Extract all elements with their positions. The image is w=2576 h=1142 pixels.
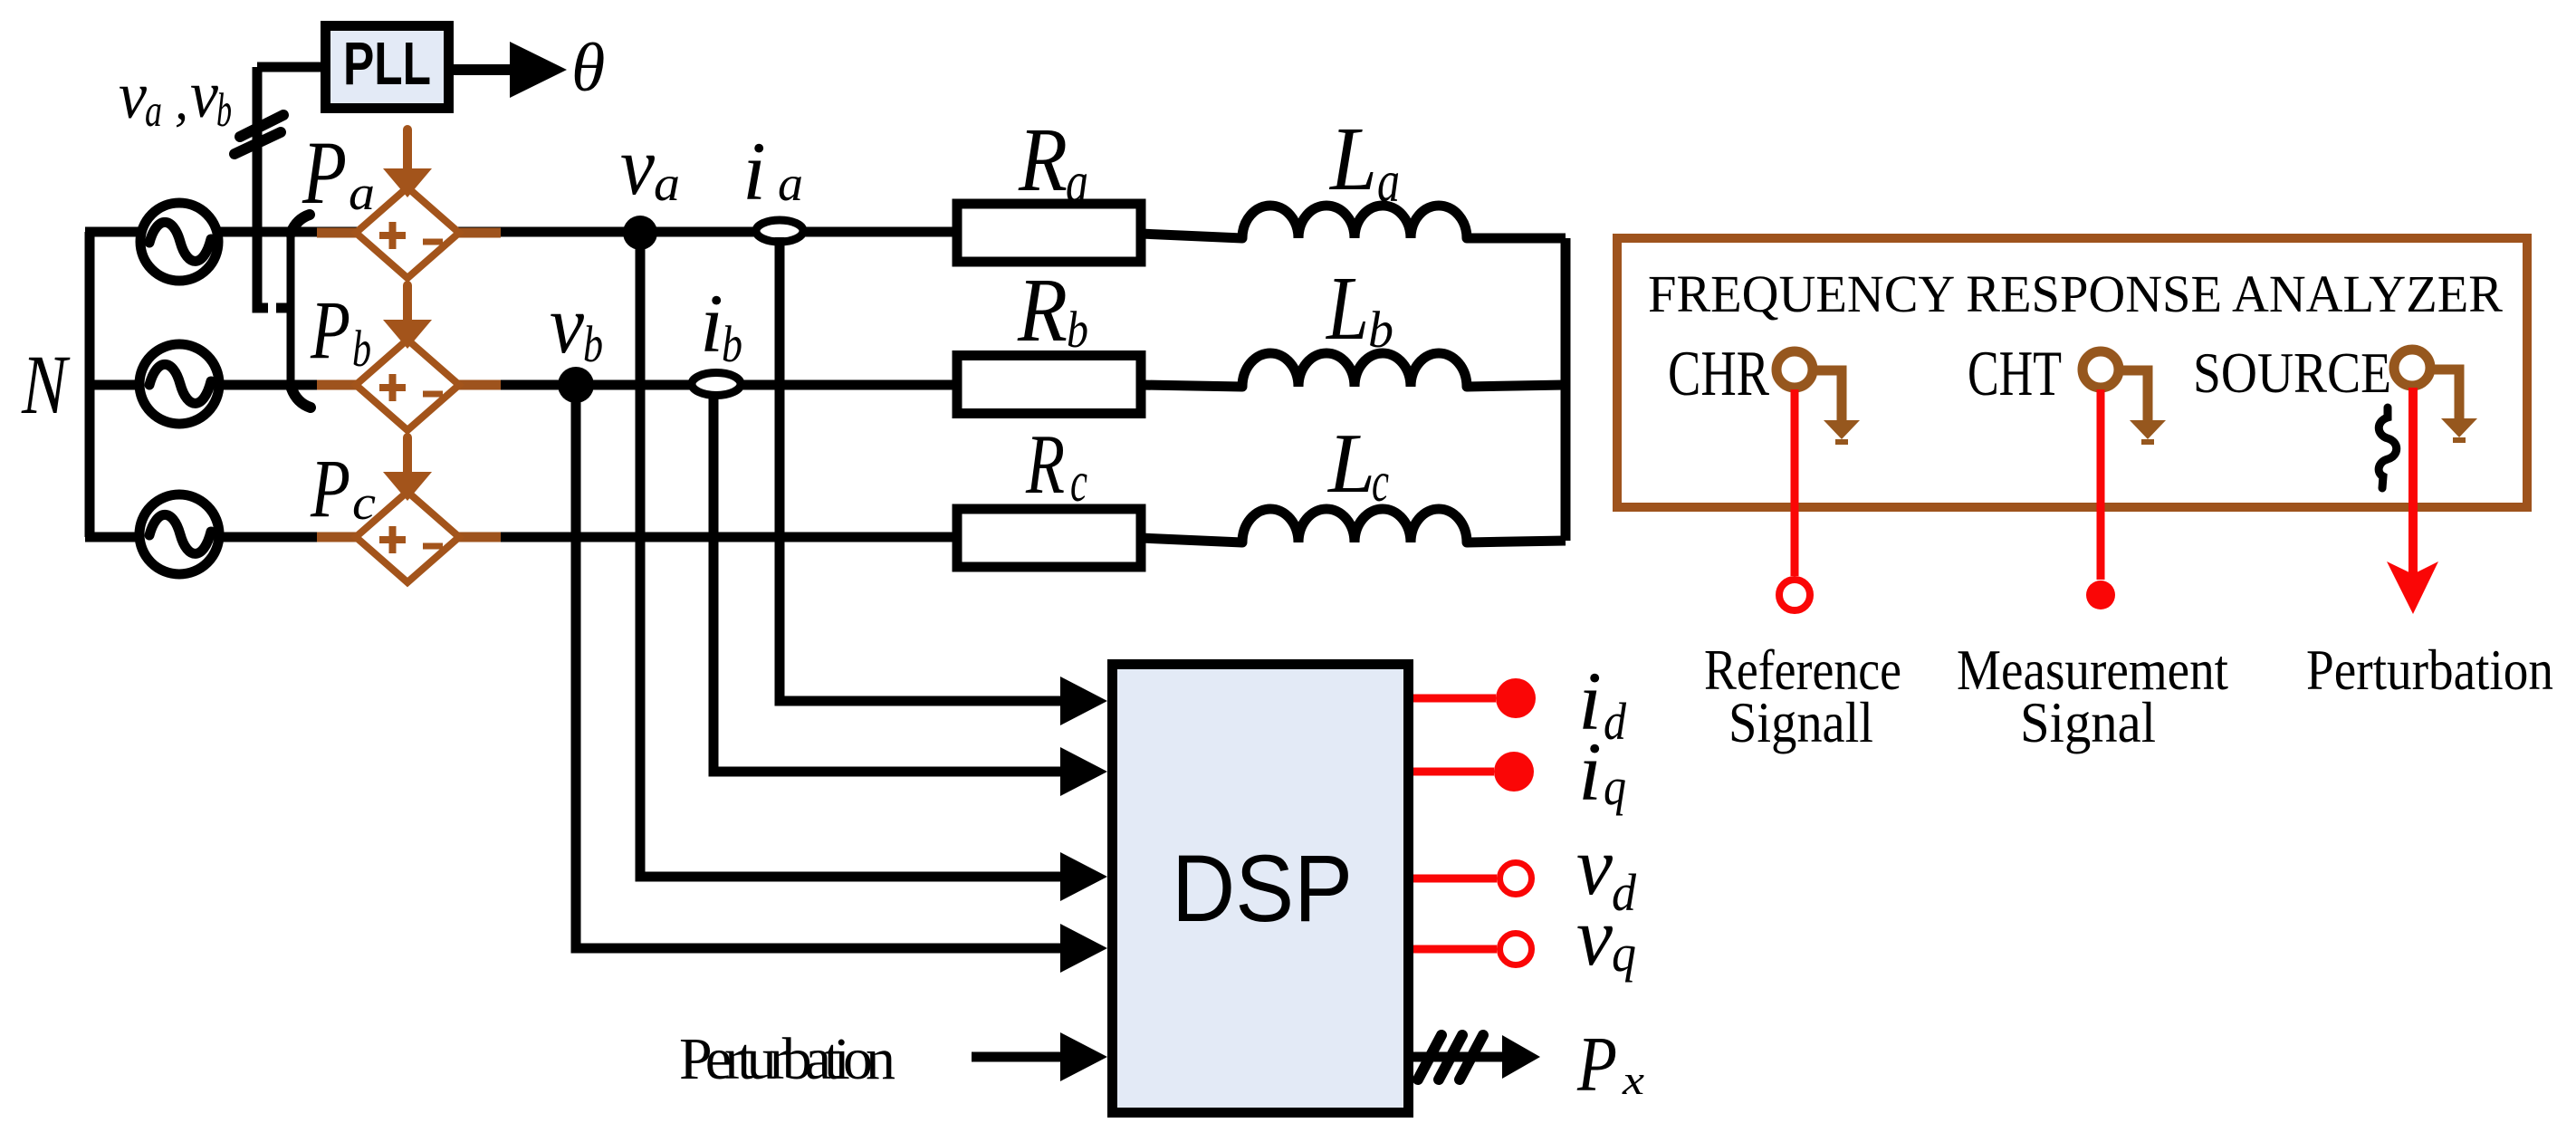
svg-text:b: b <box>583 316 603 373</box>
output id terminal dot <box>1496 678 1536 718</box>
svg-text:b: b <box>352 321 371 378</box>
node N left neutral bus wire <box>85 232 95 537</box>
tap hook row b <box>292 389 311 408</box>
dependent source Pb <box>317 285 501 430</box>
svg-text:a: a <box>1066 149 1088 216</box>
DSP input arrowhead 4 <box>1060 924 1107 973</box>
SOURCE hook arrow <box>2434 369 2477 443</box>
DSP block U2 <box>1113 665 1409 1113</box>
wire Lb to right bus <box>1467 385 1566 387</box>
AC source Ga <box>140 203 218 281</box>
output iq terminal dot <box>1494 752 1534 792</box>
CHT measurement probe dot <box>2086 581 2115 609</box>
svg-text:i: i <box>1578 725 1602 818</box>
wire Rc to Lc <box>1141 538 1242 542</box>
svg-text:CHR: CHR <box>1668 339 1769 409</box>
DSP input arrowhead 3 <box>1060 852 1107 901</box>
svg-text:d: d <box>1612 863 1637 922</box>
CHR terminal ring <box>1776 351 1813 388</box>
current sensor ib <box>692 373 741 396</box>
wire ib drop <box>713 397 1064 772</box>
tap hook row a <box>291 215 310 234</box>
output Px arrow <box>1413 1035 1540 1080</box>
svg-text:a: a <box>654 156 680 211</box>
CHR reference probe wire <box>1791 389 1799 576</box>
svg-text:R: R <box>1017 259 1068 360</box>
svg-text:a: a <box>778 156 803 211</box>
wire ia drop <box>780 237 1064 701</box>
wire La to right bus <box>1467 234 1566 244</box>
svg-text:P: P <box>302 122 347 223</box>
current sensor ia <box>756 220 803 242</box>
svg-text:v: v <box>620 120 655 212</box>
svg-text:N: N <box>21 339 71 432</box>
dependent source Pa <box>317 130 501 278</box>
svg-text:b: b <box>722 316 742 373</box>
svg-text:b: b <box>216 84 232 137</box>
svg-text:b: b <box>1067 302 1088 359</box>
wire Ra to La <box>1141 234 1242 238</box>
Perturbation input arrow <box>972 1032 1107 1081</box>
FREQUENCY RESPONSE ANALYZER box <box>1617 238 2527 507</box>
CHT measurement probe wire <box>2097 389 2105 580</box>
AC source Gb <box>139 344 219 424</box>
svg-text:v: v <box>190 58 218 132</box>
output vq terminal ring <box>1500 934 1532 965</box>
svg-text:P: P <box>310 442 350 534</box>
node va dot <box>623 216 657 250</box>
svg-text:a: a <box>1377 149 1400 215</box>
resistor Rb <box>957 356 1141 414</box>
svg-text:c: c <box>1070 449 1087 513</box>
svg-text:v: v <box>1576 890 1613 983</box>
perturbation impedance squiggle <box>2379 408 2397 488</box>
AC source Gc <box>139 494 219 574</box>
svg-text:P: P <box>310 283 350 376</box>
svg-text:d: d <box>1604 692 1627 751</box>
inductor Lc <box>1242 509 1467 542</box>
svg-text:v: v <box>119 59 147 133</box>
PLL measurement tap bus wire <box>257 67 291 390</box>
svg-text:a: a <box>145 86 162 137</box>
svg-text:x: x <box>1622 1057 1645 1103</box>
svg-text:R: R <box>1018 109 1068 210</box>
output iq wire <box>1413 768 1494 776</box>
theta output arrow <box>454 42 567 98</box>
SOURCE perturbation arrow <box>2387 388 2438 614</box>
dependent source Pc <box>317 437 501 582</box>
wire row c <box>85 533 957 542</box>
resistor Ra <box>957 204 1141 262</box>
resistor Rc <box>957 509 1141 567</box>
svg-text:Signal: Signal <box>2020 690 2156 754</box>
CHT hook arrow <box>2122 370 2166 445</box>
SOURCE terminal ring <box>2394 350 2430 386</box>
svg-text:L: L <box>1325 257 1369 359</box>
svg-text:q: q <box>1604 757 1626 816</box>
wire va drop <box>640 233 1064 877</box>
svg-text:R: R <box>1025 417 1065 512</box>
CHR reference probe ring <box>1779 580 1810 610</box>
svg-text:q: q <box>1612 924 1636 983</box>
svg-text:CHT: CHT <box>1968 339 2062 409</box>
DSP input arrowhead 1 <box>1060 677 1107 725</box>
svg-text:i: i <box>700 277 723 369</box>
wire row b <box>85 380 957 390</box>
PLL block U1 <box>326 26 449 109</box>
svg-text:P: P <box>1576 1020 1617 1108</box>
output id wire <box>1413 695 1496 703</box>
svg-text:DSP: DSP <box>1172 836 1353 942</box>
wire row a <box>85 227 957 237</box>
svg-text:a: a <box>349 166 375 220</box>
svg-text:c: c <box>352 475 376 530</box>
svg-text:L: L <box>1328 108 1377 209</box>
CHT terminal ring <box>2083 351 2119 388</box>
svg-text:Perturbation: Perturbation <box>679 1026 895 1092</box>
svg-text:v: v <box>550 278 584 370</box>
svg-text:b: b <box>1368 302 1393 359</box>
CHR hook arrow <box>1816 370 1860 445</box>
svg-text:i: i <box>742 125 766 217</box>
svg-text:Signall: Signall <box>1729 690 1873 754</box>
PLL wire <box>257 62 321 72</box>
output vd wire <box>1413 875 1497 883</box>
svg-text:Perturbation: Perturbation <box>2306 638 2553 702</box>
node vb dot <box>558 367 594 403</box>
svg-text:,: , <box>175 71 188 130</box>
inductor La <box>1242 206 1467 238</box>
right bus wire <box>1561 238 1571 541</box>
svg-text:L: L <box>1326 417 1375 511</box>
svg-text:FREQUENCY RESPONSE ANALYZER: FREQUENCY RESPONSE ANALYZER <box>1648 264 2503 323</box>
svg-text:SOURCE: SOURCE <box>2193 341 2391 405</box>
svg-text:θ: θ <box>571 30 605 106</box>
wire vb drop <box>576 385 1064 948</box>
output vd terminal ring <box>1500 863 1532 895</box>
DSP input arrowhead 2 <box>1060 747 1107 796</box>
bus double slash marks <box>235 115 283 154</box>
svg-text:PLL: PLL <box>343 30 431 98</box>
inductor Lb <box>1242 353 1467 387</box>
output vq wire <box>1413 945 1497 954</box>
svg-text:c: c <box>1372 449 1389 513</box>
wire Rb to Lb <box>1141 385 1242 387</box>
wire Lc to right bus <box>1467 541 1566 542</box>
